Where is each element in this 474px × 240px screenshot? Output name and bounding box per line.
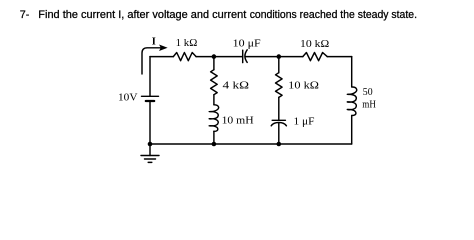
wire C2 to bottom [278,123,280,144]
wire C1 to R2 [245,56,303,58]
svg-text:10 μF: 10 μF [233,38,261,49]
wire branch2 top [278,57,280,73]
resistor R2 10 kOhm top [303,53,327,61]
svg-text:10 kΩ: 10 kΩ [288,80,319,91]
capacitor C2 1uF top plate [272,119,285,121]
svg-text:mH: mH [362,99,376,110]
resistor R1 1 kOhm [173,53,196,61]
wire branch1 top [213,57,215,70]
svg-text:conditions reached the steady: conditions reached the steady state. [250,9,417,21]
ground bar 3 [148,161,152,163]
node dot bottom branch2 [277,142,282,147]
ground stub [149,144,151,156]
node dot top branch2 [277,54,282,59]
svg-text:1 kΩ: 1 kΩ [176,38,198,49]
svg-text:10 kΩ: 10 kΩ [300,39,330,50]
node dot bottom branch1 [212,142,217,147]
wire R4 to C2 [278,97,280,120]
svg-text:1 μF: 1 μF [294,116,315,127]
wire right vertical upper [351,57,353,87]
wire right vertical lower [351,116,353,145]
node dot bottom left [148,142,153,147]
current arrow head [160,45,167,50]
inductor L1 10 mH coil [209,105,218,132]
wire L1 to bottom [213,131,215,144]
svg-text:4 kΩ: 4 kΩ [223,80,250,91]
svg-text:Find the current I, after volt: Find the current I, after voltage and cu… [38,9,246,21]
resistor R4 10 kOhm vertical [276,73,283,98]
inductor L2 50 mH coil [347,87,356,116]
wire R1 to C1 [196,56,243,58]
resistor R3 4 kOhm [211,70,218,95]
capacitor C1 10uF left plate [242,50,244,62]
wire left vertical upper [149,57,151,97]
current arrow I [142,48,161,74]
capacitor C2 1uF curved plate [271,123,286,126]
svg-text:10V: 10V [118,92,138,103]
wire R2 to top-right corner [327,56,352,58]
svg-text:50: 50 [363,87,373,98]
wire left vertical lower [149,101,151,144]
wire bottom [150,143,352,145]
svg-text:10 mH: 10 mH [222,115,254,126]
ground bar 2 [145,158,156,160]
battery V1 long plate [142,95,159,97]
battery V1 short plate [146,100,154,102]
node dot top branch1 [212,54,217,59]
svg-text:7-: 7- [20,9,30,21]
ground bar 1 [141,155,159,157]
wire top-left horizontal [150,56,173,58]
svg-text:I: I [152,37,156,48]
wire R3 to L1 [213,95,215,105]
capacitor C1 10uF curved plate [245,50,247,63]
